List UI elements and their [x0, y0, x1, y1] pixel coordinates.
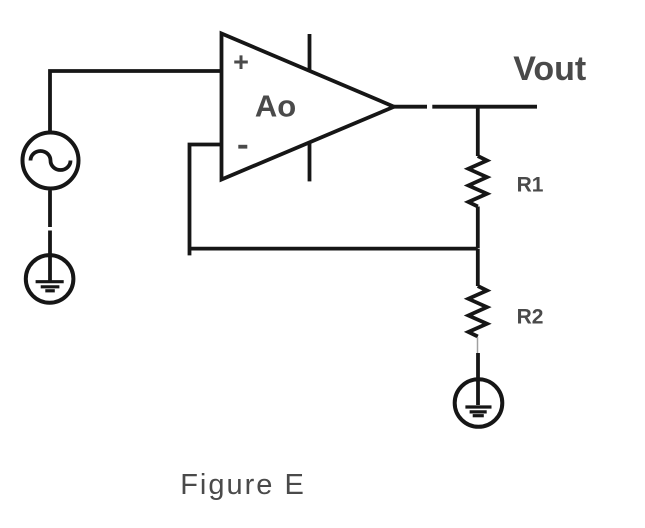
svg-text:R2: R2: [517, 306, 544, 329]
svg-text:Figure E: Figure E: [180, 469, 306, 501]
svg-text:Ao: Ao: [255, 89, 296, 124]
svg-text:Vout: Vout: [513, 50, 586, 88]
svg-text:+: +: [233, 47, 249, 77]
svg-text:R1: R1: [517, 174, 544, 197]
